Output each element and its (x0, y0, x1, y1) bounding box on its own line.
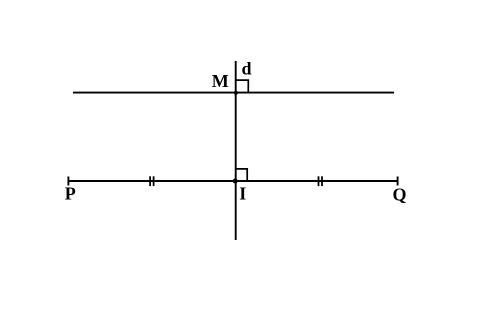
double tick on segment IQ (319, 176, 323, 186)
svg-text:Q: Q (393, 184, 407, 204)
svg-text:d: d (242, 58, 252, 78)
line d (vertical perpendicular bisector) (235, 61, 237, 240)
svg-text:P: P (65, 184, 76, 204)
point I dot (233, 179, 238, 184)
svg-text:I: I (239, 184, 246, 204)
point M dot (234, 91, 238, 95)
endpoint tick at P (67, 177, 69, 186)
endpoint tick at Q (397, 177, 399, 186)
segment PQ (68, 180, 397, 182)
right angle square at M (236, 80, 249, 93)
top horizontal line through M (73, 92, 394, 94)
double tick on segment PI (150, 176, 154, 186)
svg-text:M: M (212, 71, 229, 91)
right angle square at I (236, 169, 248, 181)
